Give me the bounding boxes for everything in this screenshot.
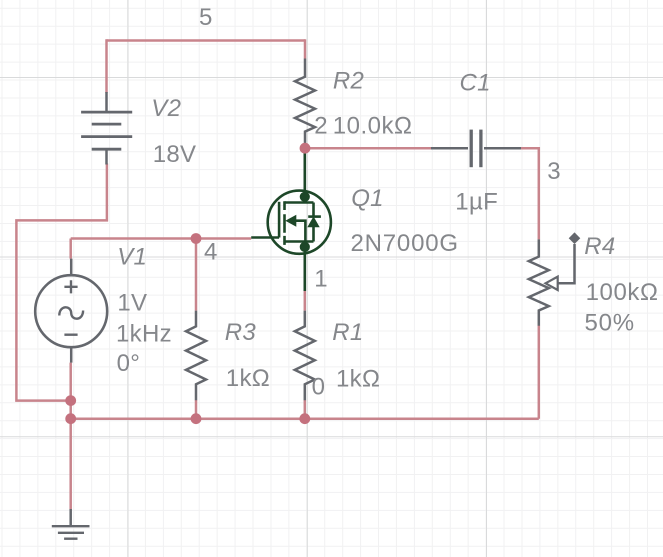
- svg-text:4: 4: [204, 239, 217, 266]
- Q1 substrate arrow: [285, 215, 296, 227]
- Q1 bottom horizontal: [285, 240, 314, 243]
- Q1 drain wire: [303, 148, 306, 202]
- wire R1 bottom: [304, 400, 307, 419]
- ground bus left junction: [65, 413, 76, 424]
- R3 bus junction: [191, 413, 202, 424]
- wire R4 bottom: [538, 326, 541, 419]
- Q1 source pin dot: [300, 242, 310, 252]
- ground symbol: [69, 509, 72, 526]
- potentiometer R4 wiper arm: [558, 244, 575, 283]
- transistor Q1 (2N7000G MOSFET): [251, 148, 331, 291]
- ac source V1 sine wave: [59, 307, 83, 318]
- wire node4 to R3: [195, 239, 198, 311]
- svg-text:1kΩ: 1kΩ: [226, 365, 270, 392]
- svg-text:C1: C1: [460, 69, 491, 96]
- Q1 channel segments: [283, 201, 286, 245]
- wires (salmon nets): [16, 39, 538, 509]
- wire V2 negative loop: [16, 164, 107, 401]
- svg-text:R4: R4: [584, 233, 615, 260]
- svg-text:1V: 1V: [117, 289, 147, 316]
- resistor R3: [186, 311, 206, 401]
- Q1 substrate link: [296, 221, 305, 242]
- svg-text:18V: 18V: [153, 141, 197, 168]
- V1 bottom junction: [65, 395, 76, 406]
- Q1 body diode line: [312, 203, 315, 242]
- wire ground bus: [71, 417, 539, 420]
- potentiometer R4 wiper arrow: [546, 277, 558, 290]
- wire net5 battery drop: [105, 39, 108, 93]
- svg-text:10.0kΩ: 10.0kΩ: [333, 113, 413, 140]
- capacitor C1 leads: [431, 147, 521, 150]
- potentiometer R4 body: [529, 239, 549, 325]
- wire net5 R2 drop: [304, 39, 307, 58]
- wire ground stem: [69, 419, 72, 510]
- ac source V1 leads: [70, 259, 73, 363]
- svg-text:0°: 0°: [117, 350, 141, 377]
- junction dots: [65, 143, 310, 424]
- svg-text:1: 1: [314, 266, 327, 293]
- wire R3 bottom: [195, 400, 198, 419]
- wire V1 bottom: [69, 363, 72, 419]
- ac source V1 minus sign: [64, 334, 77, 336]
- battery V2 leads: [105, 92, 108, 165]
- svg-text:100kΩ: 100kΩ: [586, 279, 659, 306]
- svg-text:0: 0: [312, 374, 325, 401]
- svg-text:5: 5: [199, 4, 212, 31]
- wire net5 top horizontal: [107, 39, 306, 42]
- Q1 top horizontal: [285, 201, 314, 204]
- ac source V1 circle: [35, 275, 107, 347]
- wire source to R1: [304, 291, 307, 311]
- Q1 body diode cathode bar: [308, 215, 321, 218]
- svg-text:Q1: Q1: [351, 185, 384, 212]
- battery V2 plates: [81, 112, 132, 149]
- svg-text:R3: R3: [225, 319, 257, 346]
- node 4 junction: [191, 233, 202, 244]
- Q1 gate lead: [251, 236, 279, 239]
- svg-text:50%: 50%: [585, 310, 635, 337]
- svg-text:V1: V1: [117, 244, 147, 271]
- Q1 gate bar: [278, 202, 281, 238]
- Q1 source wire: [303, 242, 306, 292]
- resistor R2: [295, 59, 315, 147]
- ac source V1 plus sign: [64, 280, 77, 293]
- svg-text:2N7000G: 2N7000G: [351, 230, 459, 257]
- svg-text:R2: R2: [333, 67, 364, 94]
- svg-text:1kHz: 1kHz: [116, 321, 172, 348]
- svg-text:2: 2: [314, 113, 327, 140]
- R1 bus junction: [299, 413, 310, 424]
- Q1 body diode triangle: [307, 216, 319, 227]
- component bodies (gray): [35, 59, 580, 539]
- svg-text:V2: V2: [151, 95, 181, 122]
- wire node2 horizontal: [305, 147, 431, 150]
- node 2 junction: [300, 143, 311, 154]
- Q1 drain pin dot: [300, 192, 310, 202]
- capacitor C1 plates: [471, 130, 481, 168]
- wire gate net: [71, 237, 252, 240]
- svg-text:R1: R1: [332, 319, 363, 346]
- svg-text:3: 3: [547, 158, 560, 185]
- wire node3 cap to corner: [521, 148, 539, 239]
- resistor R1: [295, 311, 315, 401]
- wire V1 top stem: [69, 239, 72, 259]
- Q1 circle: [268, 191, 331, 254]
- svg-text:1µF: 1µF: [455, 189, 498, 216]
- potentiometer R4 wiper diamond: [569, 232, 581, 244]
- svg-text:1kΩ: 1kΩ: [336, 365, 380, 392]
